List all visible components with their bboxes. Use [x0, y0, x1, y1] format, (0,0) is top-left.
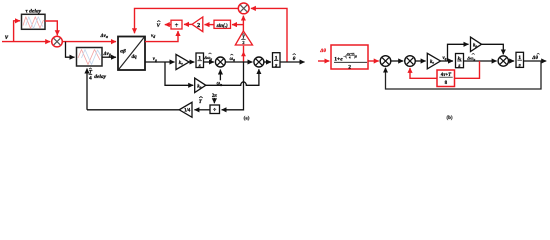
svg-text:T: T: [199, 100, 203, 105]
svg-text:αβ: αβ: [120, 49, 126, 55]
svg-text:2: 2: [348, 64, 351, 70]
svg-text:Δθ: Δθ: [531, 56, 538, 61]
svg-text:Δvα: Δvα: [100, 34, 109, 39]
svg-text:÷: ÷: [175, 22, 179, 29]
svg-text:V: V: [157, 23, 161, 29]
svg-text:vq: vq: [153, 57, 157, 62]
svg-text:kp: kp: [197, 84, 201, 89]
svg-text:(b): (b): [446, 116, 452, 121]
svg-text:dq: dq: [132, 54, 138, 60]
svg-text:1/4: 1/4: [184, 109, 191, 114]
svg-text:kv: kv: [430, 60, 434, 65]
svg-text:1+e: 1+e: [334, 57, 343, 63]
svg-text:kv: kv: [179, 61, 183, 66]
svg-text:2: 2: [197, 23, 200, 29]
svg-text:ωg: ωg: [230, 57, 235, 62]
svg-text:s: s: [198, 63, 201, 69]
svg-text:2: 2: [242, 40, 244, 45]
svg-text:4: 4: [349, 56, 351, 60]
svg-text:θ: θ: [293, 57, 296, 62]
svg-text:s: s: [518, 63, 521, 69]
svg-text:Δvβ: Δvβ: [103, 52, 111, 57]
svg-text:vd: vd: [151, 34, 155, 39]
svg-text:delay: delay: [94, 74, 106, 80]
svg-text:vq: vq: [443, 56, 447, 61]
svg-text:sin(.): sin(.): [216, 22, 228, 29]
svg-text:Δωg: Δωg: [203, 55, 212, 61]
svg-text:Δθ: Δθ: [319, 49, 326, 54]
svg-text:4: 4: [89, 76, 92, 82]
svg-text:s: s: [274, 63, 277, 69]
svg-text:ωn: ωn: [217, 82, 222, 87]
svg-text:(a): (a): [244, 116, 250, 121]
svg-text:τ delay: τ delay: [25, 9, 41, 15]
svg-text:kp: kp: [473, 43, 477, 48]
svg-text:s: s: [457, 63, 460, 69]
svg-text:v: v: [5, 33, 9, 41]
svg-text:T: T: [242, 34, 245, 39]
